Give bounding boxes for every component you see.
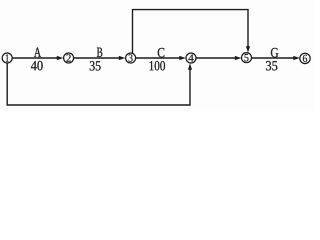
node 3 (126, 53, 136, 63)
label 35 (duration 5-6) (266, 61, 277, 70)
node 1 (2, 53, 12, 63)
arrowhead into node 2 (57, 56, 64, 60)
wire: edge 1 to 2 (12, 57, 57, 59)
label G (activity 5-6) (271, 48, 278, 57)
node 2 (64, 53, 74, 63)
wire: edge 4 to 5 (196, 57, 236, 59)
wire: bottom bypass from node 1 down, across, and up into node 4 (7, 63, 190, 105)
wire: edge 5 to 6 (252, 57, 295, 59)
label 40 (duration 1-2) (31, 61, 43, 70)
label A (activity 1-2) (34, 48, 41, 57)
wire: top bypass from node 3 up, across, and down into node 5 (133, 10, 249, 54)
arrowhead into node 4 (pointing up) (188, 63, 192, 69)
label 35 (duration 2-3) (90, 61, 101, 70)
arrowhead into node 3 (119, 56, 126, 60)
arrowhead into node 6 (293, 56, 300, 60)
arrowhead into node 4 (179, 56, 186, 60)
wire: edge 2 to 3 (74, 57, 120, 59)
node 5 (242, 53, 252, 63)
node 4 (186, 53, 196, 63)
label C (activity 3-4) (158, 48, 165, 57)
node 6 (300, 53, 310, 63)
arrowhead into node 5 (235, 56, 242, 60)
wire: edge 3 to 4 (136, 57, 181, 59)
arrowhead into node 5 (pointing down) (246, 46, 250, 52)
label B (activity 2-3) (97, 48, 102, 57)
label 100 (duration 3-4) (150, 61, 165, 70)
